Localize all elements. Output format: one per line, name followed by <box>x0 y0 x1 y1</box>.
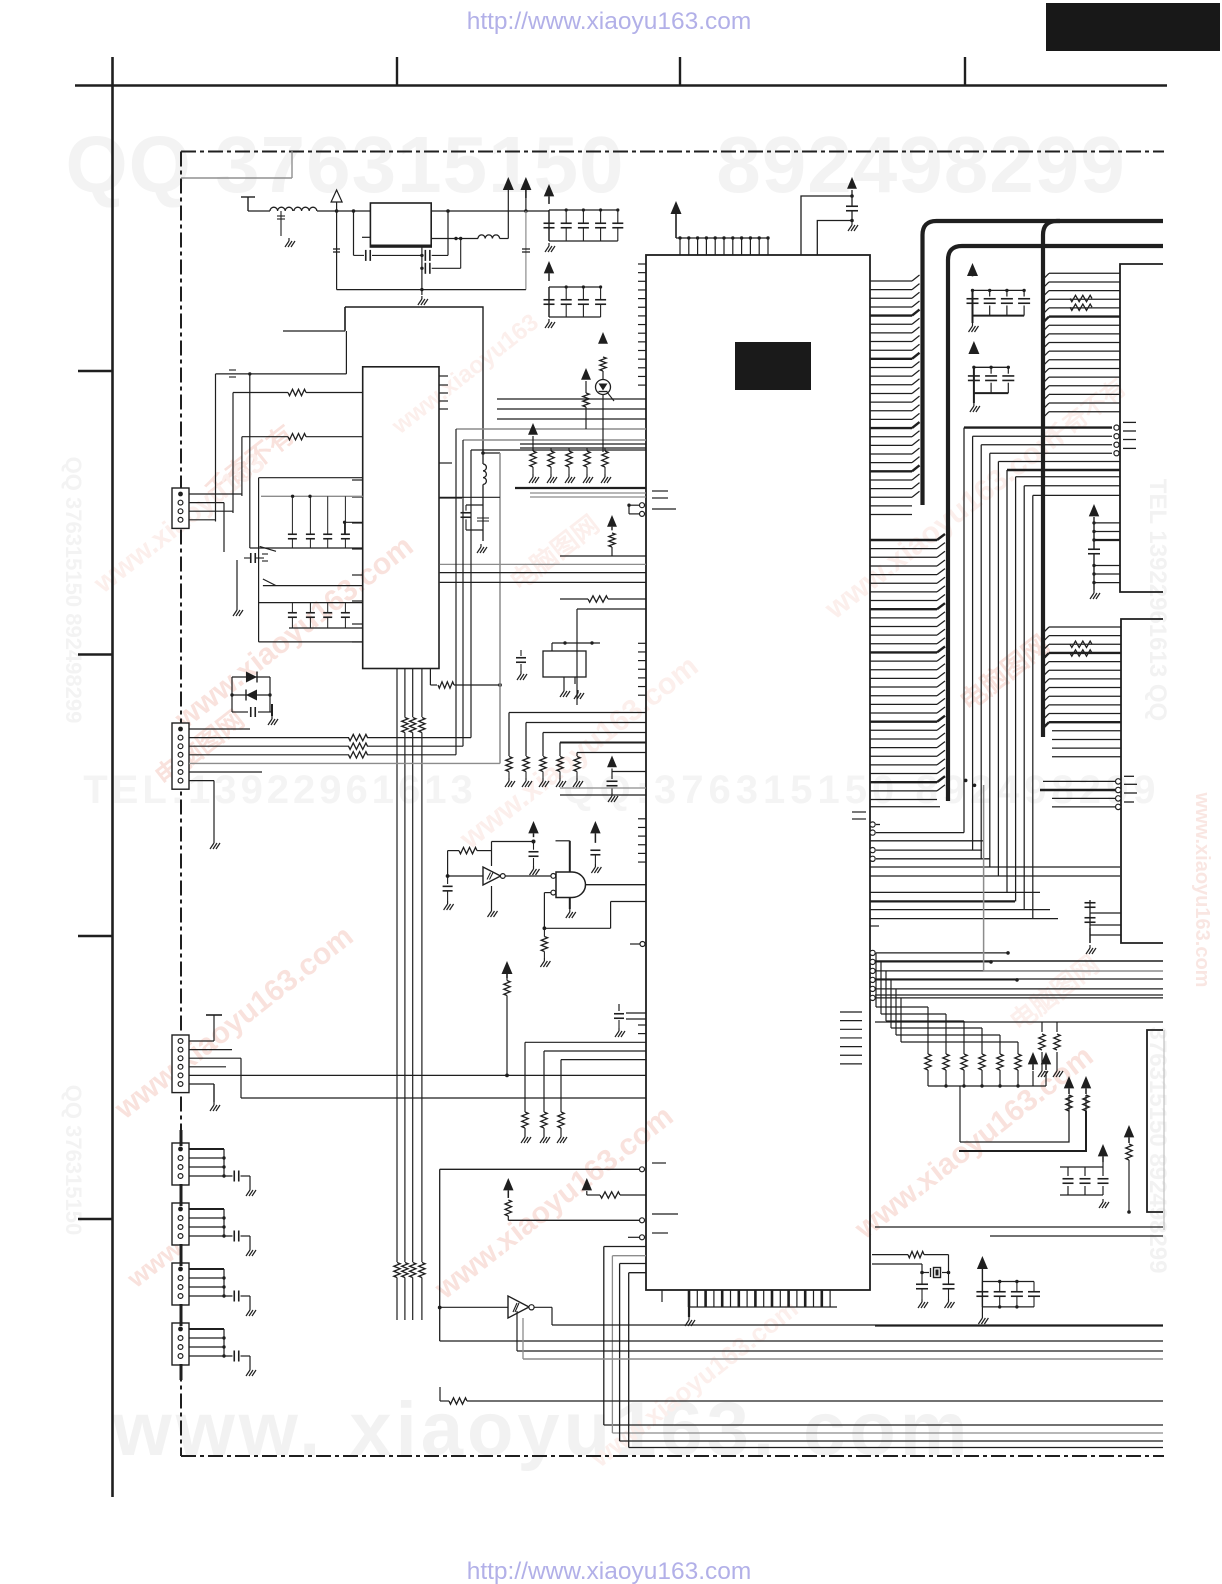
svg-text:TEL:13922961613: TEL:13922961613 <box>83 768 477 812</box>
svg-text:http://www.xiaoyu163.com: http://www.xiaoyu163.com <box>467 1558 752 1584</box>
svg-text:QQ 376315150 892498299: QQ 376315150 892498299 <box>61 457 86 724</box>
svg-text:www. xiaoyu163. com: www. xiaoyu163. com <box>112 1387 972 1472</box>
svg-text:892498299: 892498299 <box>716 120 1125 209</box>
svg-text:QQ 376315150: QQ 376315150 <box>65 120 624 209</box>
svg-text:QQ 376315150: QQ 376315150 <box>61 1085 86 1235</box>
svg-text:www.xiaoyu163.com: www.xiaoyu163.com <box>1191 792 1213 988</box>
svg-text:http://www.xiaoyu163.com: http://www.xiaoyu163.com <box>467 8 752 35</box>
svg-text:TEL 13922961613 QQ: TEL 13922961613 QQ <box>1144 479 1171 721</box>
